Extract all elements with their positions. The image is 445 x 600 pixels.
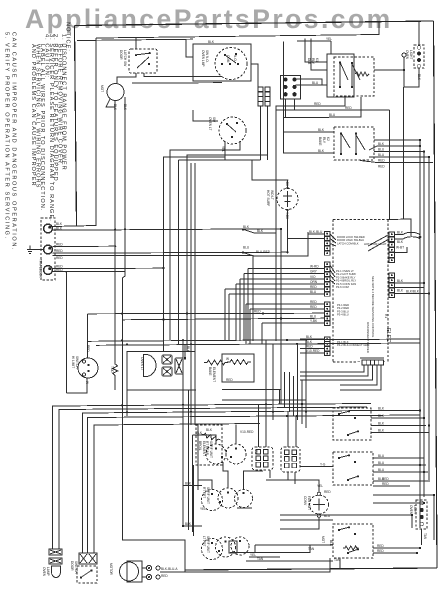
wires for indicator [252,160,288,188]
bake relay dashed box [334,127,374,160]
wire RED T3 b [52,271,125,273]
bake relay output wires [369,146,420,150]
svg-text:V10-RED: V10-RED [306,349,320,353]
svg-text:BLK: BLK [397,240,404,244]
vertical x297 [297,344,299,420]
vertical x284 [284,372,286,408]
bus y344 [96,343,420,345]
motor leads [115,97,125,352]
door latch switch dashed box [129,49,157,73]
svg-text:K2: K2 [326,137,330,141]
svg-text:RED: RED [314,102,321,106]
svg-text:OVEN LT: OVEN LT [140,357,144,370]
switch cluster 1 [333,408,371,440]
oven light wires [418,22,420,46]
svg-text:BLK: BLK [378,414,385,418]
vertical x389 [389,110,391,220]
connector grid G1 [252,447,273,470]
svg-text:ORN: ORN [310,280,318,284]
wire YEL y508 [237,507,252,509]
lamp socket 3 [175,358,183,374]
oven box [127,351,196,390]
svg-text:BLK: BLK [113,104,117,111]
wire relay bottom [117,73,136,84]
svg-text:DOOR: DOOR [119,50,123,60]
wires to bake relay [284,42,335,133]
outer border top [75,21,434,26]
svg-text:W-RD: W-RD [310,265,319,269]
terminal 1 [44,224,53,233]
svg-text:RED: RED [345,106,352,110]
oven light switch dashed circle [219,117,246,144]
control board internal labels [336,235,369,347]
svg-text:BLK: BLK [378,407,385,411]
svg-text:LT FRT: LT FRT [202,536,206,547]
relay left entry wires [305,38,327,62]
svg-text:ELEMENT: ELEMENT [212,367,216,382]
svg-text:BLK: BLK [318,149,325,153]
svg-text:BLU: BLU [378,468,385,472]
cooling fan wires [266,480,319,492]
svg-text:RED: RED [310,300,317,304]
svg-text:RT FRT: RT FRT [202,487,206,498]
wires into strip B [248,269,325,342]
svg-text:BAKE: BAKE [318,137,322,146]
svg-text:AND PROBLEMS CAN CAUSE IMPROPE: AND PROBLEMS CAN CAUSE IMPROPER [30,44,36,187]
svg-text:DOOR: DOOR [70,561,74,571]
svg-text:RED: RED [226,378,233,382]
loop r5 [94,424,260,554]
svg-text:SWITCH: SWITCH [74,561,78,574]
svg-text:BLK: BLK [318,128,325,132]
svg-text:P2-6 COM: P2-6 COM [336,285,349,289]
hot surface indicator dashed circle [277,189,298,210]
svg-text:Y-BK: Y-BK [310,319,318,323]
svg-text:P3-4 BLU: P3-4 BLU [337,313,349,317]
svg-text:BLK: BLK [208,40,215,44]
left connector strip B [325,262,330,266]
vertical x183 lower [182,341,184,527]
svg-text:K1: K1 [315,58,319,62]
loop r1 [53,404,372,550]
svg-text:LIGHT: LIGHT [409,50,413,59]
svg-text:BAKE: BAKE [208,367,212,376]
svg-text:BLU: BLU [378,153,385,157]
tod resistor vertical [113,352,118,390]
vertical x188 lower [188,390,190,530]
svg-text:YEL: YEL [317,484,323,488]
svg-text:RED: RED [378,165,385,169]
door latch motor circle [107,84,124,101]
wires into strip C [246,304,325,344]
junction dots right buses [419,139,421,141]
junction dots on loop bus [121,404,123,406]
vertical x191 [190,163,192,425]
vertical x279 [280,390,282,405]
svg-text:RLY: RLY [311,58,315,65]
notice text block (rotated) [4,22,71,251]
svg-text:BLK: BLK [417,74,421,81]
surface unit row1 right circle [226,444,246,464]
svg-text:SEE NOTE 4 BEFORE SERVICING CO: SEE NOTE 4 BEFORE SERVICING CONTROL [371,276,375,338]
motor wires to right [160,571,185,573]
vertical x273 [272,344,274,420]
left connector strip C [325,302,330,306]
svg-text:RLY: RLY [322,137,326,144]
svg-text:BLU: BLU [310,314,317,318]
relay contacts [135,53,151,68]
svg-text:W-BT: W-BT [396,246,404,250]
terminal 3 [44,266,53,275]
svg-text:BLK/BLK: BLK/BLK [406,290,420,294]
wire RED T2 b [52,252,287,253]
svg-text:P1: P1 [254,450,258,454]
svg-text:LATCH SW: LATCH SW [123,50,127,66]
svg-text:BLU-RED: BLU-RED [256,250,271,254]
svg-text:IND LT: IND LT [270,190,274,200]
wire BLK T1 upper [52,38,96,227]
svg-text:ELEC: ELEC [385,328,391,342]
svg-text:OVEN: OVEN [42,567,46,577]
connector B stubs down [286,99,295,118]
wires oven light sw [193,110,218,121]
ELEC control box dashed [333,220,388,363]
svg-text:OVEN LT: OVEN LT [208,117,212,130]
svg-text:Y-BK: Y-BK [285,212,289,220]
svg-text:W: W [226,357,229,361]
wire BLK y485 [183,485,202,487]
ground symbol [27,246,43,254]
svg-text:RED: RED [306,345,313,349]
lamp switch box [193,44,251,81]
wire YEL y557 [249,556,280,558]
wire y83 [132,82,222,84]
wire right of bake relay [374,139,420,141]
lower oven light dashed strip [416,500,427,529]
oven lamp connector bars [49,549,62,555]
connector block B circles [281,76,301,100]
lamp socket 2 [162,367,172,376]
svg-text:W: W [85,381,89,384]
vertical x127 [126,351,128,416]
svg-text:RED: RED [310,305,317,309]
svg-text:BLK: BLK [243,225,250,229]
motor terminals [146,565,151,570]
loop r3 [83,411,376,554]
wire RED T2 c [52,256,253,341]
svg-text:RED: RED [310,285,317,289]
svg-text:RED: RED [56,256,63,260]
outer border bottom [185,568,437,570]
wires from lamp switch [186,39,193,57]
R1 wires with loop [395,232,420,239]
svg-text:BLK: BLK [56,222,63,226]
svg-text:HOT SURF: HOT SURF [266,190,270,206]
vertical x187 [187,155,268,351]
svg-text:RED: RED [382,482,389,486]
svg-text:BLU: BLU [378,454,385,458]
cluster1 wires BLK [371,410,420,412]
surface unit row2 circles [202,490,223,511]
cooling fan motor dashed circle [310,495,329,514]
vertical x306 [305,340,307,428]
svg-text:BLK: BLK [397,279,404,283]
switch cluster 3 [333,524,373,558]
right bus x403 upper [403,87,405,219]
splice dots [242,228,244,230]
svg-text:H1: H1 [384,314,388,318]
wire BLK T1 lower [52,229,281,230]
vertical x193 lower [193,465,195,536]
fan motor rect [127,561,142,582]
svg-text:RED: RED [382,477,389,481]
vertical x178 [179,160,261,344]
svg-text:LATCH COM-BLK: LATCH COM-BLK [337,241,359,245]
nested corners right bottom [280,495,434,515]
svg-text:HOT SURF LIGHT: HOT SURF LIGHT [364,242,387,246]
loop r2 [59,407,367,549]
svg-text:RED: RED [377,544,384,548]
connector grid G2 [281,447,300,472]
wire from relay top to bus [135,38,137,49]
wire RED T3 a [52,267,163,269]
svg-text:MOT: MOT [321,536,325,543]
wire BLK y526 [183,525,202,527]
svg-text:YEL: YEL [200,507,206,511]
svg-text:Y-G: Y-G [320,463,326,467]
svg-text:BLU: BLU [378,148,385,152]
vertical x289 [289,372,291,412]
svg-text:SURF UNIT: SURF UNIT [209,441,213,458]
outer border left [75,26,77,227]
svg-text:BLK-BLU: BLK-BLU [309,230,323,234]
surface unit leads up [193,425,237,445]
svg-text:BLK-BLU-A: BLK-BLU-A [161,567,178,571]
strip R1 inner diagonals [368,235,389,252]
svg-text:BLU: BLU [312,81,319,85]
wire y75 to relay [296,79,323,85]
svg-text:BLK: BLK [206,428,213,432]
svg-text:YEL: YEL [250,553,256,557]
svg-text:TAN: TAN [257,557,264,561]
right connector strip R1 [389,232,395,236]
hi limit switch circle [78,358,98,378]
wire BLU splice y249 [243,232,308,256]
left connector strip D [325,337,330,341]
svg-text:BLK: BLK [56,227,63,231]
cluster3 bottom drop [339,558,341,569]
svg-text:DLB: DLB [307,58,311,64]
vertical x293 [293,376,295,416]
bottom connector row [362,360,367,365]
wire TAN y561 [246,560,310,562]
broil element dashed box [196,425,222,465]
vertical x195 [194,163,196,425]
surface unit row3 circles [202,539,223,560]
svg-text:BLK: BLK [397,289,404,293]
oven lamp bulb [52,566,61,578]
right connector strip R2 [389,273,395,277]
svg-text:V10-RED: V10-RED [240,430,254,434]
vertical drop x281 [280,229,282,390]
svg-text:RED: RED [86,345,90,352]
cluster3 left feed wires [230,545,333,553]
wire YEL top [330,41,332,54]
wire relay to right [144,73,222,77]
svg-text:BLK: BLK [378,429,385,433]
right bus x428 [428,157,430,480]
svg-text:COM: COM [226,55,230,63]
svg-text:N.O.: N.O. [233,55,237,62]
svg-text:BLU: BLU [378,461,385,465]
door switch dashed box [77,566,97,583]
wires left bottom verticals to components [53,548,60,550]
svg-text:YEL: YEL [221,146,225,152]
connector block A [258,87,263,91]
svg-text:SURF UNIT: SURF UNIT [206,536,210,553]
terminal block dashed outline [41,218,55,280]
outer border right [434,21,438,568]
svg-text:BLK: BLK [306,335,313,339]
wire relay bottom to left [276,97,345,341]
top bus second line [77,39,193,40]
receptacle small rect row3 [229,541,237,553]
cluster1 top wires RED [373,480,410,482]
svg-text:YEL: YEL [326,37,332,41]
svg-text:CAN CAUSE IMPROPER AND DANGERO: CAN CAUSE IMPROPER AND DANGEROUS OPERATI… [11,32,17,251]
cluster3 resistor [343,546,359,550]
svg-text:BLK: BLK [257,229,264,233]
strip A fan lines [330,234,336,246]
wire T3 down [52,272,66,394]
wire y400 [222,340,306,400]
broil element box [222,354,254,382]
fan motor circle [120,562,139,581]
wires into strip D [300,338,325,340]
lamp socket 1 [162,355,172,364]
svg-text:LAMP: LAMP [46,567,50,576]
cluster2 wires [373,457,424,459]
vertical x302 [301,380,303,424]
svg-text:TAN: TAN [308,547,315,551]
svg-text:BLK: BLK [378,422,385,426]
svg-text:MOT: MOT [100,85,104,92]
svg-text:VIO: VIO [310,275,316,279]
svg-text:RED: RED [56,243,63,247]
svg-text:BLK: BLK [123,104,127,111]
svg-text:BLU: BLU [329,113,336,117]
wire y389 [222,389,281,391]
svg-text:BLK: BLK [196,431,203,435]
svg-text:DISCONNECT POWER: DISCONNECT POWER [366,322,370,353]
R2 wires [395,282,424,284]
relay coil [355,72,369,76]
bottom wire tan [310,560,333,562]
vertical x122 [122,272,185,573]
switch cluster 2 [333,452,373,485]
bottom wire y572 [185,558,330,572]
bake element resistor [204,360,228,365]
svg-text:TRM BLOCK: TRM BLOCK [39,259,43,278]
strip B fan lines [330,265,335,284]
svg-text:RED: RED [56,249,63,253]
relay box solid [327,54,354,97]
svg-text:TOD: TOD [110,366,114,373]
loop r4 [88,415,421,553]
bus y340 [88,339,420,341]
relay dashed box [334,57,374,96]
svg-text:OVEN LMP: OVEN LMP [201,50,205,66]
svg-text:SW N.O.: SW N.O. [205,50,209,63]
wire BLU y85 to relay [296,84,328,86]
svg-text:OVEN: OVEN [409,505,413,515]
svg-text:SWITCH: SWITCH [75,356,79,369]
svg-text:BLU: BLU [310,290,317,294]
Y-G wire [300,466,333,468]
svg-text:AppliancePartsPros.com: AppliancePartsPros.com [25,4,393,34]
vertical x185 top segment [184,345,186,361]
svg-text:BLK: BLK [378,142,385,146]
oven light dashed strip [414,45,424,68]
cluster3 wires RED [373,547,420,549]
terminal 2 [44,245,53,254]
oven lamp shape [144,355,157,377]
wire BLU y117 left [284,117,330,119]
right bus x420 [419,140,421,528]
svg-text:MOTOR: MOTOR [109,563,113,576]
left connector strip A [325,232,330,236]
bottom connector fan-out wires [300,365,364,372]
wire right of relay [374,69,404,71]
svg-text:BLU: BLU [243,246,250,250]
right bus x424 [423,152,425,498]
svg-text:HI LIMIT: HI LIMIT [71,356,75,368]
svg-text:CONV: CONV [303,496,307,506]
hi limit wires [88,312,325,315]
svg-text:LIGHT: LIGHT [413,505,417,514]
wires into strip A [308,233,325,235]
svg-text:BLK: BLK [185,482,192,486]
svg-text:BLK: BLK [397,231,404,235]
svg-text:RED: RED [377,549,384,553]
svg-text:RED: RED [324,490,331,494]
lamp switch dashed circle [215,48,247,80]
door switch connector [79,553,97,564]
svg-text:RED: RED [378,159,385,163]
svg-text:BROIL: BROIL [198,441,202,451]
svg-text:SURF UNIT: SURF UNIT [206,487,210,504]
top bus wire L1 [96,23,379,38]
svg-text:5. VERIFY PROPER OPERATION AFT: 5. VERIFY PROPER OPERATION AFTER SERVICI… [4,32,10,240]
svg-text:RED: RED [161,574,168,578]
svg-text:RT REAR: RT REAR [205,441,209,456]
svg-text:FAN MOT: FAN MOT [307,496,311,510]
wire RED T2 a [52,245,115,247]
svg-text:BLK: BLK [329,540,333,547]
relay contacts [340,62,360,88]
jog wire BLK splice [243,229,276,341]
connector A stubs down [261,107,268,160]
surface unit row1 left circle [206,444,226,464]
vertical x266 [265,340,267,408]
svg-text:BLK: BLK [185,522,192,526]
svg-text:TAN: TAN [423,533,427,540]
svg-text:GRY: GRY [310,270,318,274]
wire RED y110 [276,109,390,111]
